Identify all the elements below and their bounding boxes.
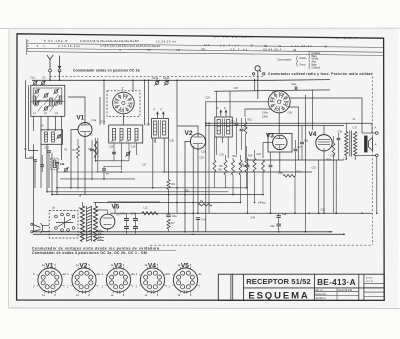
wire V4 cathode xyxy=(323,151,325,213)
wire xyxy=(354,126,356,132)
secondary taps xyxy=(97,231,104,233)
wire xyxy=(236,118,238,122)
band switch 2 dashed box xyxy=(107,91,140,117)
wire xyxy=(318,160,320,213)
page edge left xyxy=(8,29,10,308)
wire xyxy=(77,139,79,146)
wire corner 47 xyxy=(46,144,48,192)
wire xyxy=(338,133,340,138)
filter cap C47d xyxy=(133,226,138,228)
caption underline xyxy=(32,250,176,252)
filter cap C47c xyxy=(133,218,138,220)
capacitor C38 xyxy=(294,87,296,91)
page edge bottom xyxy=(9,307,400,310)
wire xyxy=(330,165,333,232)
wire xyxy=(95,138,97,161)
wire corner 57b xyxy=(56,172,58,188)
capacitor C23 xyxy=(246,164,250,166)
trimmer C3 xyxy=(35,90,38,93)
capacitor C43 xyxy=(277,215,281,217)
tube socket V2 xyxy=(72,268,96,292)
resistor R12 xyxy=(253,158,256,172)
wire xyxy=(168,229,170,232)
tube socket V4 xyxy=(140,268,164,292)
resistor R6 xyxy=(232,160,235,175)
wire xyxy=(247,160,249,164)
output transformer core xyxy=(349,131,351,157)
trimmer C9 xyxy=(58,135,61,138)
wire plug xyxy=(42,225,49,227)
capacitor C46 xyxy=(166,214,170,216)
title block outline xyxy=(218,274,384,300)
wire xyxy=(295,140,297,148)
trimmer C41b xyxy=(165,81,168,84)
wire h 160 xyxy=(246,159,344,161)
trimmer C7 xyxy=(44,107,47,110)
wire switch right 2 xyxy=(288,107,299,160)
resistor R11 xyxy=(245,158,248,172)
wire xyxy=(168,138,170,180)
trimmer C2 xyxy=(41,82,44,85)
wire xyxy=(262,172,264,195)
IFT1 core xyxy=(158,120,160,137)
wire xyxy=(301,126,303,142)
wire mid h1 xyxy=(96,160,129,162)
wire xyxy=(214,137,216,160)
wire xyxy=(246,146,248,158)
wire xyxy=(335,160,337,213)
wire V1 grid xyxy=(68,97,85,122)
wire V2 grid xyxy=(177,126,198,134)
trimmer F3 xyxy=(220,110,222,117)
wires coil box down xyxy=(113,143,115,161)
capacitor C22 xyxy=(240,128,244,130)
trimmer C4 xyxy=(44,94,47,97)
wire xyxy=(61,131,63,160)
wire xyxy=(305,95,307,232)
resistor R8 horizontal xyxy=(198,204,212,207)
wire xyxy=(56,165,58,195)
node mid xyxy=(152,187,154,189)
wire h 165 xyxy=(263,164,330,166)
title right box rows xyxy=(364,282,384,284)
wire v xyxy=(229,91,231,117)
wire xyxy=(96,201,108,203)
wire xyxy=(41,155,43,165)
wire xyxy=(152,138,154,188)
wire h 202.5 xyxy=(241,202,255,204)
bus B+ lower xyxy=(33,231,333,233)
title small rows xyxy=(314,291,358,293)
capacitor C11 xyxy=(55,161,59,163)
wire xyxy=(48,153,50,188)
wire xyxy=(154,138,156,143)
wire xyxy=(40,144,42,188)
oscillator coil box xyxy=(41,130,63,145)
wire switch right 1 xyxy=(290,98,362,133)
transformer top wires xyxy=(82,202,84,206)
node xyxy=(49,79,51,81)
node xyxy=(205,122,207,124)
resistor R9 xyxy=(167,180,170,190)
wire h 213 xyxy=(110,212,372,214)
wire v 148.5 xyxy=(148,80,150,125)
selector rotor xyxy=(56,222,73,224)
trimmer C1a xyxy=(33,82,36,85)
wire v 228.4 xyxy=(227,172,229,195)
wire h 172 xyxy=(164,171,312,173)
bus turn up right xyxy=(332,165,334,232)
node xyxy=(176,187,178,189)
title block cells xyxy=(230,274,232,300)
coil L1 xyxy=(33,96,36,104)
wire xyxy=(355,154,375,156)
IF transformer 1 box xyxy=(152,119,169,139)
scan grain overlay xyxy=(10,29,398,308)
coil L2 xyxy=(50,98,53,106)
voltage selector dashed box xyxy=(49,211,78,239)
wire h 172 long xyxy=(96,171,165,173)
node top bus junctions xyxy=(49,79,51,81)
wire v 218 xyxy=(217,160,219,213)
speaker cone xyxy=(369,138,373,151)
wire xyxy=(345,156,347,161)
trimmer C41a xyxy=(155,81,158,84)
wire xyxy=(197,220,199,232)
wire h 191.8 xyxy=(47,191,228,193)
earth terminal xyxy=(58,69,61,72)
earth arrow xyxy=(59,56,61,67)
antenna terminal xyxy=(49,69,52,72)
wire h xyxy=(214,90,330,91)
capacitor C1b xyxy=(33,159,37,161)
left block inner box xyxy=(33,88,62,100)
resistor R17 xyxy=(332,143,335,155)
wires coil block down xyxy=(33,116,35,131)
quality switch wafer xyxy=(268,91,290,113)
resistor R6b xyxy=(213,160,216,172)
resistor R3 xyxy=(97,141,99,158)
rotary switch wafer 2 xyxy=(113,92,135,114)
capacitor C10 xyxy=(47,150,51,152)
node xyxy=(148,80,150,82)
tube socket V1 xyxy=(38,268,62,292)
node xyxy=(184,194,186,196)
wire earth down xyxy=(59,71,61,80)
wire block to bus xyxy=(33,144,35,232)
trimmer C2a xyxy=(65,168,68,171)
speaker terminal bottom xyxy=(376,154,379,157)
wire xyxy=(192,146,194,232)
resistor R7c xyxy=(239,160,242,175)
wire xyxy=(215,137,217,155)
parts table lines xyxy=(27,43,384,47)
wire switch down xyxy=(278,113,280,134)
wire top bus xyxy=(32,79,270,81)
dashed bottom xyxy=(150,244,371,246)
wire xyxy=(159,195,161,214)
wire xyxy=(225,155,227,160)
resistor R4 xyxy=(77,146,80,158)
capacitor C26 xyxy=(300,141,304,143)
coil L4 xyxy=(45,132,48,142)
dashed chassis line right xyxy=(371,76,373,245)
wire xyxy=(294,176,296,214)
antenna xyxy=(47,55,53,69)
capacitor C6c xyxy=(40,164,44,166)
wire right loop xyxy=(376,212,378,214)
tube V5 xyxy=(100,214,115,229)
oscillator padder dashed box xyxy=(51,158,59,170)
wire xyxy=(232,158,234,160)
wire xyxy=(240,155,242,160)
wire left loop bottom xyxy=(25,194,27,196)
wire xyxy=(91,140,93,148)
output transformer primary xyxy=(345,132,348,156)
wire bus to switch xyxy=(132,80,134,92)
page edge top xyxy=(0,27,400,29)
wire xyxy=(110,212,115,214)
V3 shield box xyxy=(268,134,292,153)
wire V2 top xyxy=(177,128,194,135)
wire xyxy=(227,137,229,158)
junction dots rails xyxy=(95,160,97,162)
rf coil box xyxy=(109,125,143,143)
wire xyxy=(135,213,137,218)
resistor R10v xyxy=(244,122,247,134)
wire pickup down xyxy=(257,71,259,99)
speaker magnet xyxy=(365,136,368,152)
resistor R13 xyxy=(262,160,265,172)
wire h 202 xyxy=(108,201,161,203)
selector contacts xyxy=(55,215,58,218)
resistor R5 xyxy=(224,160,227,175)
speaker terminal top xyxy=(376,132,379,135)
wire xyxy=(312,90,314,131)
mains plug xyxy=(33,225,41,228)
capacitor C12 xyxy=(90,148,94,150)
wire V4 plate xyxy=(323,126,325,131)
wire V2 cathode xyxy=(197,149,199,213)
node bus xyxy=(184,231,186,233)
tube V3 xyxy=(273,135,287,149)
wire v xyxy=(215,91,217,117)
output transformer secondary xyxy=(354,132,357,156)
capacitor C42 xyxy=(277,223,281,225)
choke xyxy=(142,212,158,215)
resistor R7 xyxy=(167,219,170,229)
wire switch stem xyxy=(122,114,124,125)
wire top bus right xyxy=(270,79,330,82)
wire xyxy=(333,136,335,143)
coil L10 xyxy=(53,160,56,168)
bus lower 2 xyxy=(33,233,345,235)
wire xyxy=(114,202,116,213)
wire xyxy=(34,162,36,188)
wire v 177 ext xyxy=(176,126,178,213)
wire h 166.5 xyxy=(104,166,122,168)
wire mid h2 xyxy=(57,171,122,173)
wire xyxy=(371,123,373,133)
wire v2 vert xyxy=(176,80,178,126)
wire xyxy=(278,213,280,215)
node xyxy=(168,212,170,214)
wire bus to switch 2 xyxy=(144,80,146,125)
wire h 187.8 xyxy=(57,187,247,189)
trimmer F4 xyxy=(225,110,227,117)
wire V3 down xyxy=(279,152,281,172)
terminal xyxy=(263,73,265,75)
filter cap C47b xyxy=(124,226,129,228)
wire xyxy=(163,138,165,172)
wire xyxy=(270,152,272,164)
capacitor C14 xyxy=(112,151,116,153)
capacitor C21 xyxy=(235,122,239,124)
wire xyxy=(93,203,95,214)
tube socket V5 xyxy=(173,268,197,292)
wire h 202.5 long xyxy=(94,202,241,204)
tube V4 xyxy=(316,135,332,151)
trimmer C8 xyxy=(54,102,57,105)
terminal xyxy=(252,73,254,75)
trimmer F2 xyxy=(162,112,164,119)
pickup jack Q xyxy=(255,66,260,71)
trimmer C6 xyxy=(35,102,38,105)
wire double to transformer xyxy=(205,122,372,124)
wire V1 left xyxy=(71,130,78,188)
coil L7 xyxy=(120,129,123,141)
coil IFT1b xyxy=(163,121,166,135)
wire xyxy=(103,80,105,125)
antenna coil unit box xyxy=(31,85,65,116)
wire v 57 xyxy=(56,165,58,172)
IF transformer 2 box xyxy=(215,117,233,137)
capacitor C33 xyxy=(337,137,341,139)
wire xyxy=(126,213,128,218)
wire xyxy=(254,150,256,158)
wire V1 cathode xyxy=(84,136,86,194)
coil L6 xyxy=(113,129,116,141)
wire v 209 xyxy=(208,123,210,213)
bus2 turn xyxy=(344,160,346,234)
coil IFT2a xyxy=(217,120,220,135)
resistor R15 horizontal xyxy=(283,174,295,177)
coil L9 xyxy=(135,129,138,141)
wire mid h3 xyxy=(60,178,135,180)
wire corner 52 xyxy=(51,153,53,195)
wire to bus xyxy=(254,79,256,91)
tube V1 xyxy=(78,123,92,137)
coil L5 xyxy=(52,132,55,142)
wire xyxy=(221,137,223,143)
wire xyxy=(99,97,101,125)
wire switch left 2 xyxy=(245,109,272,117)
capacitor C17 xyxy=(102,168,106,170)
wire xyxy=(311,130,313,172)
capacitor C30 xyxy=(269,164,273,166)
power transformer core xyxy=(87,207,92,209)
coil L8 xyxy=(128,129,131,141)
capacitor C27 xyxy=(294,148,298,150)
IFT2 core xyxy=(221,119,223,137)
left block lower divider xyxy=(31,101,65,103)
filter cap C47a xyxy=(124,218,129,220)
wire v 205.8 xyxy=(205,102,207,232)
wire h 194.6 xyxy=(52,194,263,196)
wire xyxy=(168,190,170,214)
wire xyxy=(245,118,247,122)
wire xyxy=(96,209,108,211)
wire xyxy=(343,160,345,235)
resistor R2 xyxy=(94,141,97,158)
coil winding marks xyxy=(35,95,39,101)
wire xyxy=(376,157,378,214)
wire switch left 1 xyxy=(205,101,268,103)
border frame xyxy=(17,34,385,301)
wire xyxy=(97,138,99,172)
power transformer secondary xyxy=(94,206,98,242)
wire xyxy=(345,123,347,131)
wire V2 left xyxy=(185,141,190,231)
wire V3 left xyxy=(263,142,273,158)
wire antenna down xyxy=(49,72,51,80)
coil L3 xyxy=(59,96,62,104)
capacitor C45 xyxy=(196,217,200,219)
trimmer C16 xyxy=(126,152,129,155)
trimmer F1 xyxy=(156,112,158,119)
coil IFT2b xyxy=(227,120,230,135)
wire left return A xyxy=(26,80,34,158)
trimmer C5 xyxy=(54,90,57,93)
power transformer primary xyxy=(81,206,85,242)
wire left return B xyxy=(29,85,39,150)
wire xyxy=(241,118,243,128)
tube V2 xyxy=(190,134,205,149)
coil IFT1a xyxy=(154,121,157,135)
wire xyxy=(362,132,376,134)
wire mid h4 xyxy=(103,166,105,168)
tube socket V3 xyxy=(106,268,130,292)
switch position dashed line xyxy=(50,75,264,77)
